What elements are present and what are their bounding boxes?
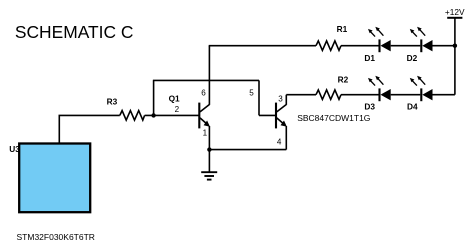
svg-text:6: 6 <box>201 89 206 98</box>
wire Q2 collector up to row2 <box>285 95 287 105</box>
wire bottom emitter tie <box>209 149 286 151</box>
wire Q2 emitter down <box>285 126 287 150</box>
wire D2 to +12V rail <box>433 45 455 47</box>
svg-text:D2: D2 <box>407 53 418 63</box>
ground <box>201 150 217 180</box>
wire Q2 collector to R2 <box>286 94 316 96</box>
wire +12V rail vertical <box>454 18 456 95</box>
svg-text:R1: R1 <box>337 24 348 34</box>
wire D3 to D4 <box>391 94 421 96</box>
LED D4 <box>410 76 433 101</box>
transistor Q1 <box>199 103 210 129</box>
resistor R2 <box>316 90 341 100</box>
svg-text:+12V: +12V <box>445 7 465 17</box>
IC U3 body <box>19 144 90 213</box>
wire top row to R1 <box>209 45 316 47</box>
wire U3 pin to R3 <box>59 115 120 143</box>
wire down to Q2 base <box>258 80 260 115</box>
power +12V <box>445 7 465 18</box>
svg-text:4: 4 <box>277 138 282 147</box>
node rail junction dot <box>453 44 457 48</box>
svg-text:D3: D3 <box>364 101 375 111</box>
svg-text:1: 1 <box>203 129 208 138</box>
svg-text:2: 2 <box>175 105 180 114</box>
wire base tie horizontal <box>153 79 259 81</box>
LED D1 <box>368 27 391 52</box>
svg-text:Q1: Q1 <box>169 93 180 103</box>
wire rail to D4 <box>433 94 455 96</box>
svg-text:STM32F030K6T6TR: STM32F030K6T6TR <box>17 232 95 242</box>
svg-text:R3: R3 <box>107 96 118 106</box>
wire R1 to D1 <box>341 45 379 47</box>
svg-text:R2: R2 <box>338 74 349 84</box>
svg-text:5: 5 <box>249 89 254 98</box>
svg-text:3: 3 <box>278 94 283 103</box>
wire R2 to D3 <box>341 94 379 96</box>
node emitter/ground junction dot <box>207 147 211 151</box>
resistor R1 <box>316 41 341 51</box>
transistor Q2 <box>276 103 287 129</box>
wire to Q2 base bar <box>259 114 275 116</box>
wire D1 to D2 <box>391 45 421 47</box>
resistor R3 <box>120 111 145 121</box>
svg-text:D1: D1 <box>364 53 375 63</box>
svg-text:SCHEMATIC C: SCHEMATIC C <box>15 22 134 42</box>
wire Q1 emitter down to ground node <box>208 126 210 150</box>
wire base junction up <box>153 80 155 115</box>
svg-text:D4: D4 <box>407 101 418 111</box>
node base junction dot <box>151 113 155 117</box>
svg-text:U3: U3 <box>9 144 20 154</box>
svg-text:SBC847CDW1T1G: SBC847CDW1T1G <box>297 113 370 123</box>
wire R3 to Q1 base <box>145 114 199 116</box>
LED D2 <box>410 27 433 52</box>
wire Q1 collector up to top row <box>208 46 210 105</box>
LED D3 <box>368 76 391 101</box>
